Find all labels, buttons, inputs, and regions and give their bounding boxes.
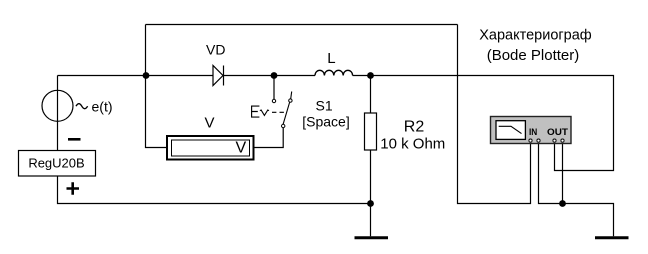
wire switch bottom to voltmeter right lead [255, 128, 284, 148]
resistor R2 [365, 113, 377, 150]
ground under R2 [355, 236, 389, 239]
svg-text:e(t): e(t) [92, 99, 113, 115]
instrument Bode plotter U1 [491, 117, 572, 144]
svg-text:OUT: OUT [547, 127, 569, 137]
svg-text:R2: R2 [404, 119, 425, 136]
svg-text:10 k Ohm: 10 k Ohm [380, 136, 445, 153]
node C junction dot [367, 72, 374, 79]
wire resistor R2 bottom to ground [370, 150, 372, 236]
pin IN+ [529, 139, 532, 142]
wire diode cathode to inductor (through node B) [224, 75, 316, 77]
pin IN- [537, 139, 540, 142]
label E of switch key [251, 106, 259, 118]
ground right of Bode plotter [595, 236, 629, 239]
ground net junction dot [559, 200, 566, 207]
block RegU20B [19, 151, 96, 177]
wire source branch vertical left [57, 76, 59, 151]
pin OUT+ [553, 139, 556, 142]
wire inductor to OUT+ loop (node C to Bode OUT+) [353, 76, 614, 171]
svg-text:(Bode Plotter): (Bode Plotter) [487, 47, 580, 64]
svg-text:[Space]: [Space] [302, 114, 349, 130]
svg-text:L: L [327, 50, 335, 67]
node B junction dot [271, 72, 278, 79]
switch S1 [260, 92, 292, 128]
wire top rail from node A to Bode IN+ [146, 25, 531, 204]
wire Bode OUT- down to ground net junction [562, 144, 564, 204]
wire source top to diode anode [58, 75, 214, 77]
svg-text:IN: IN [529, 127, 537, 137]
polarity minus of source [68, 138, 81, 141]
wire node B down to switch terminal [273, 78, 275, 99]
polarity plus of source [67, 182, 80, 195]
svg-text:VD: VD [206, 42, 225, 58]
svg-text:RegU20B: RegU20B [28, 156, 84, 171]
wire Bode IN- to ground net [539, 144, 614, 237]
wire RegU20B to bottom rail [58, 176, 371, 204]
pin OUT- [561, 139, 564, 142]
inductor L [315, 70, 353, 75]
svg-text:Характериограф: Характериограф [479, 28, 592, 44]
wire node A vertical to voltmeter left lead [146, 25, 168, 148]
diode VD [213, 66, 224, 86]
label ~ tilde of source [76, 104, 88, 109]
bottom rail junction dot [367, 200, 374, 207]
node A junction dot [143, 72, 150, 79]
svg-text:S1: S1 [316, 98, 333, 114]
voltmeter V [167, 136, 254, 160]
svg-text:V: V [205, 115, 215, 132]
wire node C to resistor R2 top [370, 78, 372, 113]
AC source e(t) [42, 90, 73, 121]
svg-text:V: V [236, 140, 247, 157]
